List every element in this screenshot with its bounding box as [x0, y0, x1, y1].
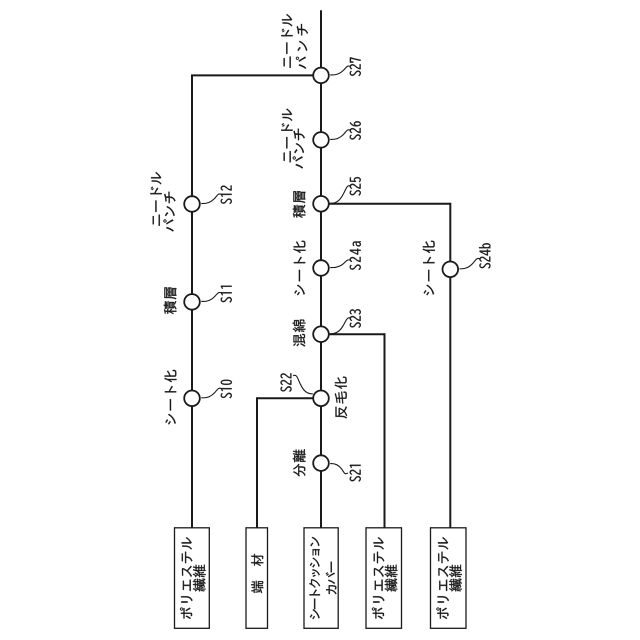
box polyester fiber 1 [175, 528, 210, 629]
step S25 lamination [293, 177, 361, 218]
step S24a sheet-forming [294, 241, 361, 296]
wire chain-1 main [191, 75, 193, 527]
step S26 needle punch [281, 109, 360, 169]
wire scrap branch [256, 397, 258, 528]
box scrap material [246, 528, 268, 629]
step S23 blending [293, 309, 361, 346]
wire S25 drop [321, 203, 450, 205]
wire chain-2 main [320, 10, 322, 528]
wire S22 riser [257, 397, 321, 399]
step S24b sheet-forming [423, 241, 491, 296]
step S12 needle punch [150, 172, 231, 231]
step S22 garnetting [281, 373, 348, 418]
box polyester fiber 3 [431, 528, 467, 629]
step S10 sheet-forming [165, 370, 232, 425]
box seat cushion cover [304, 528, 338, 629]
wire chain-1 to S27 [191, 74, 321, 76]
wire polyester-2 branch [384, 333, 386, 528]
step S11 lamination [164, 286, 232, 314]
box polyester fiber 2 [366, 528, 402, 629]
wire polyester-3 branch [449, 203, 451, 528]
step S21 separation [293, 449, 361, 481]
wire S23 drop [321, 333, 385, 335]
step S27 needle punch [281, 14, 360, 83]
